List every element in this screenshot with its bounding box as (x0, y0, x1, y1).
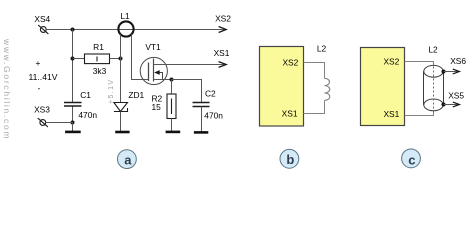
wire tap XS6 (444, 71, 459, 73)
wire ZD1 top lead (120, 59, 122, 103)
inductor L1 ring (118, 21, 133, 36)
svg-text:L1: L1 (120, 11, 130, 21)
svg-text:XS1: XS1 (214, 48, 230, 58)
device box (c) (361, 48, 405, 126)
ground ZD1 (115, 131, 129, 134)
wire XS3 to C1 (46, 122, 73, 124)
svg-text:b: b (286, 152, 294, 167)
wire box b XS2 to coil (304, 63, 325, 79)
variant circle c (402, 149, 421, 168)
svg-text:ZD1: ZD1 (128, 90, 144, 100)
capacitor C2 (193, 103, 210, 107)
svg-text:15: 15 (152, 102, 162, 112)
connector XS4 (38, 25, 48, 34)
capacitor C1 (64, 103, 82, 107)
wire R2 bottom lead (171, 119, 173, 132)
tap node XS5 (442, 103, 446, 107)
arrowhead XS6 (453, 69, 460, 74)
ground C1 (65, 131, 81, 134)
svg-text:470n: 470n (78, 110, 97, 120)
wire drain to XS1 (154, 64, 227, 66)
wire left vertical (supply/C1 branch) (72, 30, 74, 103)
zener ZD1 (114, 103, 128, 112)
coil L2 cylinder (c) (424, 65, 444, 110)
variant circle b (280, 149, 299, 168)
junction R1/ZD1/L1 (119, 57, 123, 61)
svg-text:XS2: XS2 (282, 57, 298, 67)
wire box c XS1 to coil bottom (405, 111, 434, 116)
ground R2 (166, 131, 181, 134)
svg-text:-: - (38, 83, 41, 93)
wire R1 right lead (110, 58, 121, 60)
junction top-left (71, 28, 75, 32)
svg-text:C2: C2 (205, 89, 216, 99)
svg-text:c: c (408, 152, 415, 167)
svg-text:C1: C1 (80, 90, 91, 100)
svg-text:XS5: XS5 (448, 90, 464, 100)
junction R1 left (71, 57, 75, 61)
svg-text:XS1: XS1 (282, 108, 298, 118)
svg-text:470n: 470n (204, 111, 223, 121)
svg-text:3k3: 3k3 (93, 66, 107, 76)
resistor R1 (85, 54, 110, 64)
wire R2 top lead (171, 80, 173, 95)
resistor R2 (167, 94, 176, 119)
wire C1 bottom lead (72, 123, 74, 132)
ground C2 (194, 131, 208, 134)
svg-text:XS4: XS4 (34, 14, 50, 24)
wire C2 bottom lead (201, 107, 203, 132)
svg-text:R1: R1 (93, 42, 104, 52)
svg-text:a: a (124, 152, 132, 167)
arrowhead XS1 (219, 62, 227, 68)
junction source/R2/C2 (170, 78, 174, 82)
svg-text:L2: L2 (428, 44, 438, 54)
svg-text:+: + (36, 58, 41, 68)
arrowhead XS5 (453, 102, 460, 107)
bulk arrow of VT1 (154, 70, 160, 75)
svg-text:XS1: XS1 (383, 109, 399, 119)
svg-text:+5.1V: +5.1V (108, 79, 115, 105)
svg-text:XS3: XS3 (34, 104, 50, 114)
junction XS3/C1 (71, 121, 75, 125)
wire source lead (154, 79, 172, 81)
transistor VT1 (MOSFET) (140, 57, 167, 84)
svg-text:www.Gorchilin.com: www.Gorchilin.com (2, 38, 12, 140)
svg-text:VT1: VT1 (145, 42, 161, 52)
svg-text:XS2: XS2 (383, 56, 399, 66)
device box (b) (260, 47, 304, 127)
tap node XS6 (442, 70, 446, 74)
svg-text:11..41V: 11..41V (29, 72, 58, 82)
wire L1 right winding leg to gate (132, 34, 149, 79)
svg-text:XS2: XS2 (215, 13, 231, 23)
inductor L2 (b) (325, 78, 330, 100)
wire R1 left lead (73, 58, 85, 60)
wire coil to box b XS1 (304, 101, 325, 114)
wire tap XS5 (444, 104, 459, 106)
svg-text:L2: L2 (317, 44, 327, 54)
arrowhead XS2 (219, 27, 227, 33)
wire L1 left winding leg (120, 34, 122, 58)
wire box c XS2 to coil top (405, 62, 434, 66)
wire source to C2 (172, 80, 202, 103)
wire ZD1 bottom lead (120, 112, 122, 132)
connector XS3 (38, 118, 48, 127)
variant circle a (118, 150, 137, 169)
svg-text:XS6: XS6 (450, 56, 466, 66)
wire top rail XS4 to XS2 (46, 29, 226, 31)
